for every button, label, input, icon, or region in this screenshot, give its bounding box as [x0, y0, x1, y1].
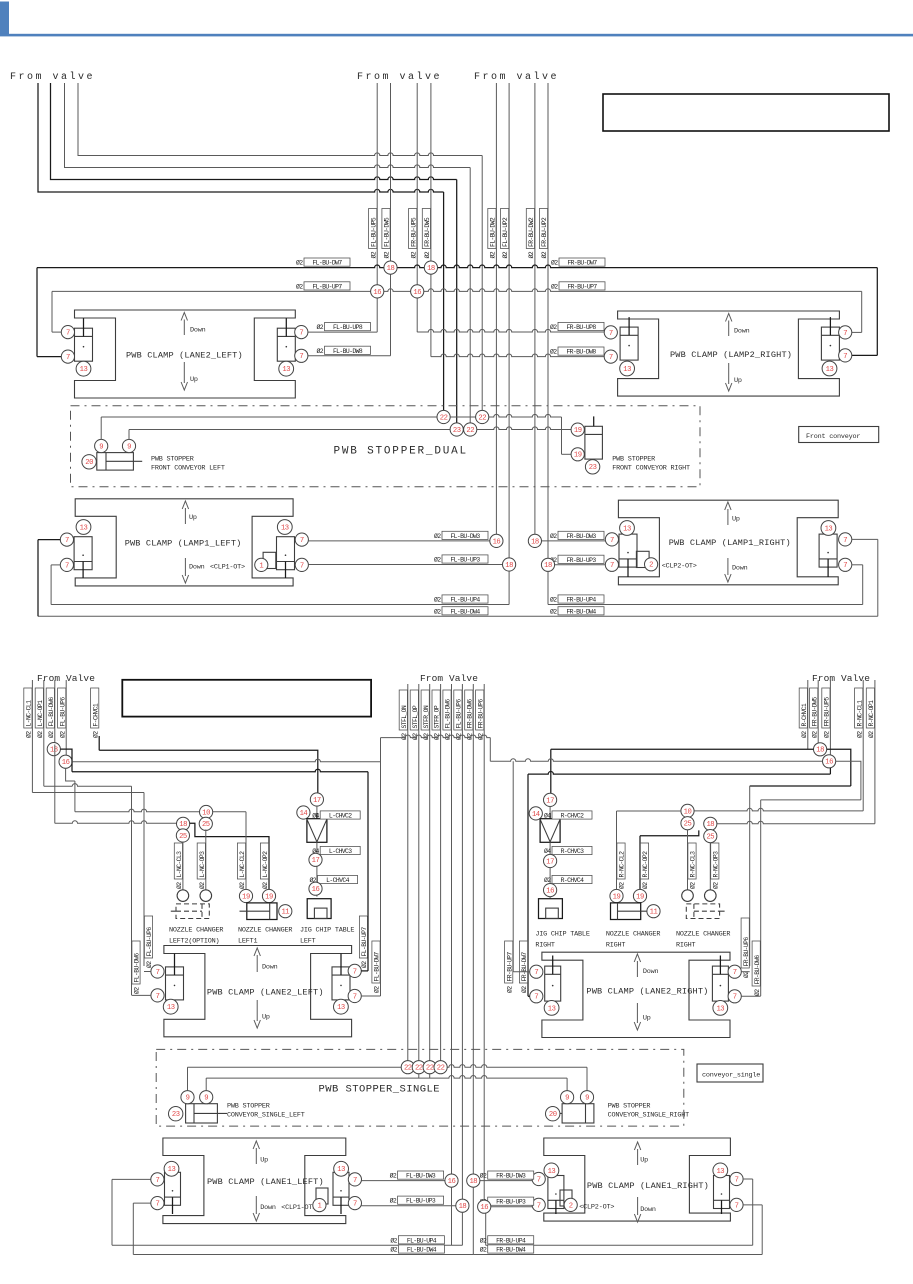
svg-text:Ø2: Ø2 [618, 882, 626, 889]
port 7 [728, 965, 741, 978]
junction 18 [384, 261, 397, 274]
port 7 [151, 965, 164, 978]
svg-text:CONVEYOR_SINGLE_LEFT: CONVEYOR_SINGLE_LEFT [227, 1112, 305, 1120]
svg-text:PWB STOPPER_DUAL: PWB STOPPER_DUAL [334, 446, 468, 458]
wire circle18 to FR UP4 row [547, 571, 549, 604]
svg-text:FR-BU-UP6: FR-BU-UP6 [477, 699, 484, 729]
row FL-BU-UP4 [51, 604, 509, 606]
port 7 [348, 1173, 361, 1186]
label col left b [519, 941, 527, 983]
svg-text:23: 23 [172, 1111, 180, 1119]
wire left outer [37, 540, 39, 617]
svg-text:16: 16 [825, 759, 833, 767]
svg-text:7: 7 [843, 353, 847, 361]
port 13 [277, 520, 292, 535]
junction 16 [411, 285, 424, 298]
cylinder left [165, 1172, 181, 1205]
stub [429, 1074, 431, 1078]
port 1 [255, 558, 268, 571]
port 7 [151, 1197, 164, 1210]
port 11 [647, 905, 660, 918]
svg-text:7: 7 [155, 1201, 159, 1209]
link bottom-right port [361, 995, 380, 997]
port 7 [604, 350, 617, 363]
svg-text:conveyor_single: conveyor_single [702, 1072, 760, 1080]
svg-text:9: 9 [204, 1095, 208, 1103]
junction 25 [199, 817, 212, 830]
svg-text:Ø2: Ø2 [505, 986, 513, 993]
label col FR-BU-DW6 [752, 941, 760, 986]
label F-CHVC1 [91, 688, 99, 728]
label R-NC-OP3 [711, 843, 719, 879]
svg-text:18: 18 [50, 747, 58, 755]
svg-text:16: 16 [448, 1178, 456, 1186]
svg-text:<CLP2-OT>: <CLP2-OT> [579, 1204, 614, 1212]
svg-text:Ø2: Ø2 [544, 876, 551, 884]
label FL-BU-DW5 [382, 209, 390, 249]
cylinder right [333, 1172, 349, 1205]
svg-text:Ø2: Ø2 [465, 733, 473, 740]
wire FL-BU-UP2 [508, 83, 510, 565]
svg-text:FR-BU-DW8: FR-BU-DW8 [566, 349, 596, 356]
svg-text:9: 9 [99, 443, 103, 451]
row FR-BU-UP8 [417, 329, 604, 332]
svg-text:16: 16 [62, 759, 70, 767]
svg-text:Ø2: Ø2 [810, 731, 818, 738]
svg-text:13: 13 [337, 1004, 345, 1012]
svg-text:Ø2: Ø2 [550, 323, 557, 331]
svg-text:Ø4: Ø4 [312, 812, 319, 820]
svg-text:Down: Down [262, 964, 278, 972]
wire from left valve x=38 [38, 83, 444, 192]
svg-text:Ø2: Ø2 [383, 251, 391, 258]
port 7 [61, 350, 74, 363]
label L-NC-CL1 [24, 688, 32, 728]
svg-text:22: 22 [437, 1065, 445, 1073]
port 7 [730, 1172, 743, 1185]
Front conveyor label box [799, 427, 879, 443]
svg-text:FL-BU-DW7: FL-BU-DW7 [374, 952, 381, 982]
svg-text:FL-BU-UP4: FL-BU-UP4 [407, 1237, 437, 1244]
up arrow [728, 363, 730, 384]
svg-text:Up: Up [640, 1156, 648, 1164]
port 9 [561, 1091, 574, 1104]
junction 16 [371, 285, 384, 298]
port link [741, 995, 760, 997]
wire FR-BU-UP5 [829, 680, 831, 755]
svg-text:Up: Up [189, 514, 197, 522]
svg-text:Ø2: Ø2 [476, 733, 484, 740]
port 7 [605, 558, 618, 571]
line CHVC1 to jig column [99, 750, 318, 793]
svg-text:FL-BU-UP3: FL-BU-UP3 [450, 557, 480, 564]
row via circle 10 [75, 809, 246, 812]
cylinder left of LAMP1_LEFT [74, 537, 92, 570]
wire A2 down [456, 180, 458, 430]
svg-text:PWB CLAMP (LAMP1_RIGHT): PWB CLAMP (LAMP1_RIGHT) [669, 538, 791, 548]
svg-text:18: 18 [469, 1178, 477, 1186]
svg-text:Ø4: Ø4 [544, 812, 551, 820]
svg-text:13: 13 [623, 366, 631, 374]
up arrow [637, 1149, 639, 1165]
port 9 [181, 1091, 194, 1104]
wire from left valve x=64.5 [65, 83, 471, 168]
port 7 [730, 1198, 743, 1211]
port 7 [604, 326, 617, 339]
svg-text:R-NC-OP1: R-NC-OP1 [868, 700, 875, 727]
svg-text:16: 16 [373, 289, 381, 297]
wire 18 to DW4 [472, 1187, 474, 1254]
port 7 [61, 326, 74, 339]
svg-text:FR-BU-DW2: FR-BU-DW2 [528, 217, 535, 247]
svg-text:From Valve: From Valve [420, 673, 478, 684]
svg-text:20: 20 [549, 1111, 557, 1119]
svg-text:FR-BU-DW5: FR-BU-DW5 [424, 217, 431, 247]
svg-text:FL-BU-DW7: FL-BU-DW7 [312, 260, 342, 267]
wire from left valve x=50.5 [51, 83, 457, 180]
junction 10 [681, 804, 694, 817]
svg-text:Ø2: Ø2 [689, 882, 697, 889]
wire FR-BU-UP2 [547, 83, 549, 565]
svg-text:18: 18 [459, 1203, 467, 1211]
label L-NC-CL3 [174, 843, 182, 879]
svg-text:RIGHT: RIGHT [606, 942, 626, 950]
wire FR-BU-UP6 col [749, 786, 751, 966]
port 7 [60, 533, 73, 546]
label col FR-BU-UP6 [741, 918, 749, 968]
svg-text:Down: Down [190, 327, 206, 335]
svg-text:7: 7 [299, 353, 303, 361]
svg-text:Up: Up [643, 1015, 651, 1023]
svg-text:FR-BU-DW7: FR-BU-DW7 [567, 260, 597, 267]
svg-text:1: 1 [259, 562, 263, 570]
svg-text:7: 7 [609, 354, 613, 362]
svg-text:7: 7 [65, 537, 69, 545]
svg-text:L-NC-OP3: L-NC-OP3 [199, 851, 206, 878]
svg-text:Down: Down [734, 328, 750, 336]
jig chip table left box [307, 899, 331, 919]
svg-text:Ø2: Ø2 [551, 282, 558, 290]
svg-text:FR-BU-UP7: FR-BU-UP7 [506, 952, 513, 982]
svg-text:7: 7 [300, 537, 304, 545]
svg-text:PWB CLAMP (LANE1_RIGHT): PWB CLAMP (LANE1_RIGHT) [587, 1181, 709, 1191]
label FL-BU-UP6 [58, 688, 66, 728]
wire FL-BU-DW5 [390, 83, 392, 356]
cylinder right [712, 966, 728, 1001]
wire A1 down [443, 192, 445, 417]
port 2 [564, 1198, 577, 1211]
up arrow [256, 1000, 258, 1021]
header blue bar [0, 2, 9, 37]
port 19 [610, 889, 623, 902]
stub [418, 1074, 420, 1078]
junction 22 [401, 1061, 414, 1074]
svg-text:R-CHVC2: R-CHVC2 [561, 813, 584, 820]
svg-text:7: 7 [155, 1177, 159, 1185]
svg-text:PWB STOPPER: PWB STOPPER [151, 456, 194, 464]
port 7 [348, 1197, 361, 1210]
svg-text:13: 13 [80, 366, 88, 374]
row FR-BU-UP3 [555, 564, 606, 566]
svg-text:Ø2: Ø2 [390, 1246, 397, 1254]
svg-text:LEFT1: LEFT1 [238, 938, 258, 946]
port 7 [728, 990, 741, 1003]
svg-text:Ø2: Ø2 [238, 882, 246, 889]
svg-text:From valve: From valve [474, 71, 559, 83]
label FR-BU-UP5 [822, 688, 830, 728]
svg-text:Ø2: Ø2 [527, 251, 535, 258]
junction 17 [544, 793, 557, 806]
svg-text:RIGHT: RIGHT [676, 942, 696, 950]
left stopper CONVEYOR_SINGLE_LEFT [186, 1104, 218, 1123]
svg-text:Ø2: Ø2 [434, 532, 441, 540]
NC right2 col a [687, 830, 689, 890]
svg-text:Ø2: Ø2 [411, 733, 419, 740]
junction 16 [823, 755, 836, 768]
svg-text:FR-BU-UP6: FR-BU-UP6 [743, 937, 750, 967]
svg-text:Down: Down [189, 564, 205, 572]
svg-text:<CLP1-OT>: <CLP1-OT> [281, 1204, 316, 1212]
clamp LANE1_RIGHT plate [544, 1138, 731, 1221]
wire to right 9 [566, 1078, 568, 1090]
clamp side col outer [143, 793, 145, 967]
svg-text:Ø2: Ø2 [360, 961, 368, 968]
svg-text:Ø2: Ø2 [800, 731, 808, 738]
svg-text:13: 13 [80, 524, 88, 532]
label R-NC-OP1 [866, 688, 874, 728]
svg-text:7: 7 [66, 354, 70, 362]
row FL-BU-UP4 [112, 1244, 462, 1246]
wire 18 to UP4 [461, 1212, 463, 1245]
svg-text:JIG CHIP TABLE: JIG CHIP TABLE [300, 927, 354, 935]
svg-text:13: 13 [281, 524, 289, 532]
svg-text:18: 18 [505, 562, 513, 570]
svg-text:9: 9 [565, 1095, 569, 1103]
port 13 [334, 1161, 349, 1176]
wire right outer [877, 539, 879, 616]
label FL-BU-UP5 [369, 209, 377, 249]
label STFR_ON [421, 690, 429, 730]
svg-text:R-NC-OP3: R-NC-OP3 [712, 851, 719, 878]
svg-text:PWB CLAMP (LANE2_RIGHT): PWB CLAMP (LANE2_RIGHT) [586, 987, 708, 997]
svg-text:7: 7 [609, 330, 613, 338]
wire from left valve x=78 [78, 83, 482, 156]
wire 16 to FR UP4 [485, 1213, 487, 1245]
bridge to 16R [490, 759, 822, 762]
conveyor_single label box [697, 1064, 763, 1082]
svg-text:17: 17 [312, 857, 320, 865]
port 19 [239, 889, 252, 902]
svg-text:Down: Down [732, 565, 748, 573]
row FL-BU-DW3 [309, 540, 490, 542]
cylinder left [548, 1176, 564, 1209]
svg-text:7: 7 [843, 537, 847, 545]
svg-text:FR-BU-UP4: FR-BU-UP4 [496, 1237, 526, 1244]
junction 17 [309, 853, 322, 866]
svg-text:7: 7 [353, 1201, 357, 1209]
svg-text:10: 10 [202, 809, 210, 817]
svg-text:FR-BU-DW3: FR-BU-DW3 [496, 1173, 526, 1180]
label STFR_OP [432, 690, 440, 730]
cylinder left of LANE2_LEFT [75, 328, 93, 361]
port 7 [295, 558, 308, 571]
svg-text:Ø2: Ø2 [489, 251, 497, 258]
svg-text:PWB STOPPER: PWB STOPPER [608, 1103, 651, 1111]
port 13 [76, 361, 91, 376]
svg-text:Ø2: Ø2 [423, 251, 431, 258]
down arrow [183, 320, 185, 336]
wire right inner [862, 565, 864, 605]
wire STFR_ON [429, 684, 431, 1061]
svg-text:7: 7 [843, 562, 847, 570]
svg-text:2: 2 [569, 1202, 573, 1210]
port 13 [163, 999, 178, 1014]
svg-text:Up: Up [262, 1014, 270, 1022]
label FR-BU-DW2 [526, 209, 534, 249]
NC left2 col a [182, 842, 184, 890]
port 7 [532, 1198, 545, 1211]
junction 16 [309, 882, 322, 895]
svg-text:2: 2 [649, 562, 653, 570]
wire R-CHVC1 [807, 680, 809, 749]
svg-text:R-NC-CL2: R-NC-CL2 [619, 851, 626, 878]
svg-text:From Valve: From Valve [812, 673, 870, 684]
col 368 lower [367, 916, 369, 971]
CLP1-OT sensor [263, 552, 276, 568]
label FL-BU-DW6 [443, 690, 451, 730]
stopper row 2 [129, 427, 571, 430]
svg-text:L-NC-OP2: L-NC-OP2 [262, 851, 269, 878]
cylinder left [545, 966, 561, 1001]
svg-text:Ø2: Ø2 [434, 556, 441, 564]
port link [528, 995, 530, 997]
row 10R [617, 810, 682, 812]
svg-text:L-NC-CL3: L-NC-CL3 [176, 851, 183, 878]
svg-text:Ø2: Ø2 [373, 986, 381, 993]
svg-text:FL-BU-DW3: FL-BU-DW3 [450, 533, 480, 540]
junction 14 [529, 807, 542, 820]
port 13 [164, 1161, 179, 1176]
svg-text:13: 13 [168, 1166, 176, 1174]
svg-text:Ø2: Ø2 [58, 731, 66, 738]
svg-text:19: 19 [265, 893, 273, 901]
svg-text:FL-BU-DW5: FL-BU-DW5 [384, 217, 391, 247]
port 19 [633, 889, 646, 902]
svg-text:FR-BU-DW7: FR-BU-DW7 [521, 952, 528, 982]
svg-text:16: 16 [312, 886, 320, 894]
label R-NC-CL1 [855, 688, 863, 728]
svg-text:Ø2: Ø2 [422, 733, 430, 740]
svg-text:FL-BU-UP2: FL-BU-UP2 [502, 217, 509, 247]
clamp LAMP2_RIGHT plate [618, 311, 840, 396]
svg-text:FL-BU-DW6: FL-BU-DW6 [134, 953, 141, 983]
port 13 [713, 1001, 728, 1016]
row FR-BU-DW3 bottom [480, 1180, 532, 1182]
wire F-CHVC1 [98, 736, 100, 750]
svg-text:7: 7 [733, 969, 737, 977]
wire STFR_OP [440, 684, 442, 1061]
svg-text:FR-BU-UP8: FR-BU-UP8 [566, 324, 596, 331]
port 7 [295, 326, 308, 339]
svg-text:7: 7 [537, 1202, 541, 1210]
row FR-BU-DW3 [542, 540, 606, 542]
junction 17 [544, 854, 557, 867]
svg-text:18: 18 [179, 821, 187, 829]
svg-text:Ø4: Ø4 [544, 847, 551, 855]
svg-text:Ø2: Ø2 [390, 1236, 397, 1244]
port 13 [713, 1163, 728, 1178]
port 9 [122, 439, 135, 452]
svg-text:FR-BU-UP2: FR-BU-UP2 [541, 217, 548, 247]
svg-text:Ø2: Ø2 [25, 731, 33, 738]
wire FR-BU-UP5 [416, 83, 418, 332]
svg-text:FL-BU-UP7: FL-BU-UP7 [361, 927, 368, 957]
port 7 [839, 326, 852, 339]
line 786 [750, 785, 851, 787]
label FL-BU-DW6 [46, 688, 54, 728]
svg-text:NOZZLE CHANGER: NOZZLE CHANGER [606, 931, 660, 939]
junction 23 [450, 423, 463, 436]
svg-text:PWB STOPPER: PWB STOPPER [227, 1103, 270, 1111]
cylinder left of LAMP1_RIGHT [619, 534, 637, 567]
svg-text:7: 7 [156, 969, 160, 977]
jig chip table right box [539, 899, 563, 919]
wire L-NC-OP1 [43, 680, 45, 786]
svg-text:Ø2: Ø2 [501, 251, 509, 258]
svg-text:PWB CLAMP (LANE2_LEFT): PWB CLAMP (LANE2_LEFT) [207, 988, 324, 998]
label col FL-BU-DW6 [132, 941, 140, 984]
cylinder right of LAMP2_RIGHT [821, 327, 839, 360]
CLP2-OT sensor [636, 551, 649, 567]
port 7 [605, 533, 618, 546]
row FR-BU-DW8 [431, 354, 604, 357]
svg-text:17: 17 [313, 797, 321, 805]
svg-text:17: 17 [546, 858, 554, 866]
svg-text:19: 19 [613, 893, 621, 901]
cylinder right [714, 1176, 730, 1209]
svg-text:FR-BU-UP3: FR-BU-UP3 [566, 557, 596, 564]
svg-text:25: 25 [684, 821, 692, 829]
down arrow [637, 1197, 639, 1215]
svg-text:7: 7 [353, 1177, 357, 1185]
svg-text:18: 18 [816, 747, 824, 755]
svg-text:22: 22 [466, 427, 474, 435]
svg-text:R-NC-CL3: R-NC-CL3 [690, 851, 697, 878]
wire R-NC-OP1 [874, 680, 876, 824]
clamp LANE1_LEFT plate [163, 1138, 346, 1224]
label L-NC-OP2 [260, 843, 268, 879]
down arrow [255, 1196, 257, 1214]
cylinder left [166, 967, 184, 1000]
svg-text:7: 7 [66, 330, 70, 338]
wire A3 down [469, 168, 471, 430]
svg-text:Up: Up [190, 376, 198, 384]
junction 10 [200, 805, 213, 818]
label STFL_OP [410, 690, 418, 730]
label L-NC-OP3 [197, 843, 205, 879]
svg-text:Ø2: Ø2 [400, 733, 408, 740]
row from 16 [72, 759, 380, 762]
wire FR-BU-DW6 [472, 684, 474, 1181]
port 13 [822, 361, 837, 376]
clamp side col inner [131, 786, 133, 995]
line to 18R nozzle [640, 830, 699, 835]
wire STFL_ON [407, 684, 409, 1061]
svg-text:Ø2: Ø2 [550, 348, 557, 356]
port 13 [821, 521, 836, 536]
svg-text:7: 7 [537, 1176, 541, 1184]
svg-text:Ø2: Ø2 [520, 986, 528, 993]
